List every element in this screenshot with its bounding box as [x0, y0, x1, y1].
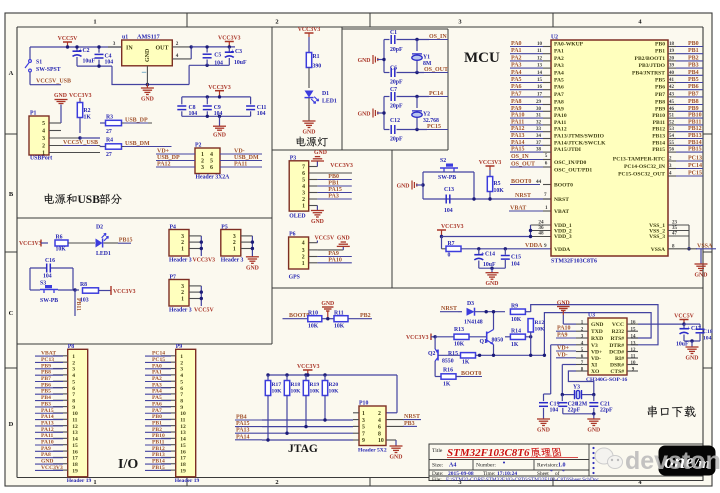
- wire VCC3V3 to R1: [308, 37, 310, 53]
- svg-text:PB4/JNTRST: PB4/JNTRST: [632, 70, 665, 76]
- svg-text:C16: C16: [45, 258, 55, 264]
- svg-text:PA2: PA2: [554, 56, 564, 62]
- gnd rail left crystal Y1: [383, 40, 385, 73]
- svg-text:OSC_IN/PD0: OSC_IN/PD0: [554, 160, 587, 166]
- svg-text:STM32F103C8T6: STM32F103C8T6: [551, 259, 597, 265]
- watermark chat logo: [595, 448, 623, 469]
- svg-text:3: 3: [181, 234, 184, 240]
- svg-text:390: 390: [313, 64, 322, 70]
- svg-text:R1: R1: [313, 54, 320, 60]
- svg-text:PB11: PB11: [75, 298, 81, 311]
- svg-text:PB9: PB9: [655, 106, 665, 112]
- svg-text:*: *: [550, 469, 553, 475]
- svg-text:11: 11: [72, 418, 77, 424]
- svg-text:U3: U3: [588, 313, 595, 319]
- svg-text:P10: P10: [359, 401, 368, 407]
- svg-text:B: B: [9, 191, 14, 198]
- connector P1 USBPort: [29, 116, 49, 155]
- svg-text:2: 2: [180, 360, 183, 366]
- svg-text:16: 16: [72, 449, 78, 455]
- svg-text:R18: R18: [291, 382, 301, 388]
- svg-text:23: 23: [672, 221, 678, 226]
- wire S1 to VCC5V_USB: [29, 72, 31, 85]
- svg-text:R20: R20: [329, 382, 339, 388]
- capacitor C9 104: [206, 97, 208, 104]
- ground symbol below C14 C15: [486, 272, 499, 274]
- svg-text:4: 4: [302, 184, 305, 190]
- reset loop wires around S2 and C13: [423, 171, 474, 173]
- section title 电源灯: [296, 136, 305, 146]
- svg-text:7: 7: [362, 431, 365, 437]
- P3 pin7 to GND above: [316, 161, 318, 167]
- connector P9 Header 19: [176, 349, 196, 477]
- microcontroller U2 STM32F103C8T6: [551, 40, 668, 256]
- svg-text:12: 12: [180, 424, 186, 430]
- svg-text:XO: XO: [591, 369, 600, 375]
- svg-text:13: 13: [537, 64, 543, 69]
- svg-text:R4: R4: [106, 138, 113, 144]
- pin 3 stub of U1: [108, 46, 122, 48]
- svg-text:VDDA: VDDA: [554, 247, 570, 253]
- svg-text:2: 2: [275, 19, 278, 26]
- svg-text:10K: 10K: [535, 327, 546, 333]
- U2 VSS stubs pins 23 35 47: [668, 224, 689, 226]
- P6 pin3 to GND symbol: [317, 249, 343, 251]
- svg-text:16: 16: [537, 85, 543, 90]
- svg-text:9: 9: [362, 438, 365, 444]
- svg-text:17: 17: [72, 456, 78, 462]
- svg-text:1: 1: [233, 247, 236, 253]
- svg-text:Header 3: Header 3: [221, 258, 244, 264]
- svg-text:10K: 10K: [272, 389, 283, 395]
- S3 loop wires: [29, 268, 31, 290]
- capacitor C20 22pF: [561, 395, 563, 402]
- svg-text:Number:: Number:: [476, 463, 496, 469]
- svg-text:1: 1: [302, 261, 305, 267]
- U3 XO wire down to crystal Y3: [568, 371, 593, 395]
- svg-text:A4: A4: [449, 463, 456, 469]
- wire R14 base side to Q1 base: [504, 336, 506, 338]
- P2 left stubs and net labels VD+ USB_DP PA12: [175, 153, 195, 155]
- svg-text:C20: C20: [568, 402, 578, 408]
- P6 pin4 to VCC5V: [316, 241, 318, 243]
- resistor R19 10K: [305, 375, 307, 381]
- svg-text:20pF: 20pF: [390, 47, 403, 53]
- svg-text:11: 11: [180, 418, 185, 424]
- svg-text:D2: D2: [96, 225, 103, 231]
- resistor R1 390 vertical: [306, 53, 311, 68]
- ground symbol below Y3 caps: [587, 418, 600, 420]
- svg-text:PA6: PA6: [554, 85, 564, 91]
- svg-text:GND: GND: [537, 428, 550, 434]
- svg-text:XI: XI: [591, 363, 597, 369]
- svg-text:C15: C15: [511, 255, 521, 261]
- svg-text:RXD: RXD: [591, 336, 603, 342]
- svg-text:NRST: NRST: [554, 197, 569, 203]
- switch S1 SW-SPST: [29, 47, 31, 60]
- svg-text:C11: C11: [257, 105, 267, 111]
- svg-text:File:: File:: [432, 477, 442, 483]
- svg-text:VCC3V3: VCC3V3: [193, 258, 216, 264]
- crystal Y1 8M: [416, 40, 418, 52]
- ground symbol below U1: [146, 85, 148, 89]
- P3 pin stubs: [309, 166, 318, 168]
- svg-text:A: A: [9, 70, 14, 77]
- svg-text:14: 14: [72, 437, 78, 443]
- svg-text:10: 10: [180, 411, 186, 417]
- wire R9 to R12 top: [530, 311, 532, 313]
- svg-text:RTS#: RTS#: [611, 336, 625, 342]
- svg-text:Y1: Y1: [423, 55, 430, 61]
- capacitor C6 20pF on OSC_OUT: [384, 72, 390, 74]
- svg-text:S1: S1: [36, 60, 42, 66]
- svg-text:PB1: PB1: [655, 49, 665, 55]
- svg-text:VCC3V3: VCC3V3: [406, 335, 429, 341]
- svg-text:VCC3V3: VCC3V3: [113, 289, 136, 295]
- wire gnd to P1 pin5: [60, 105, 62, 124]
- svg-text:8050: 8050: [492, 338, 504, 344]
- svg-text:39: 39: [669, 64, 675, 69]
- svg-text:2: 2: [302, 255, 305, 261]
- svg-text:2: 2: [176, 41, 179, 47]
- svg-text:VSS_3: VSS_3: [649, 234, 665, 240]
- svg-text:PA15/JTDI: PA15/JTDI: [554, 147, 581, 153]
- svg-text:5: 5: [210, 159, 213, 165]
- resistor R12 10K vertical: [528, 319, 533, 332]
- svg-text:PA9: PA9: [554, 106, 564, 112]
- svg-text:Y3: Y3: [573, 385, 580, 391]
- P1 pin stubs: [49, 122, 61, 124]
- svg-text:R12: R12: [535, 320, 545, 326]
- pin 1 gnd stub of U1: [146, 66, 148, 85]
- svg-text:GND: GND: [591, 322, 603, 328]
- resistor R2 1K vertical: [79, 98, 81, 101]
- svg-text:GND: GND: [390, 455, 403, 461]
- LED D2 PB15: [96, 233, 109, 247]
- gnd wire under C14 C15: [479, 267, 506, 269]
- svg-text:PB2/BOOT1: PB2/BOOT1: [635, 56, 666, 62]
- svg-text:44: 44: [536, 179, 542, 185]
- svg-text:35: 35: [672, 226, 678, 231]
- svg-text:56: 56: [669, 148, 675, 153]
- svg-text:4: 4: [72, 373, 75, 379]
- svg-text:VCC5V_USB: VCC5V_USB: [36, 79, 71, 85]
- svg-text:R17: R17: [272, 382, 282, 388]
- wire R1 to LED D1: [308, 68, 310, 89]
- svg-text:53: 53: [669, 127, 675, 132]
- svg-text:5: 5: [180, 379, 183, 385]
- svg-text:3: 3: [181, 284, 184, 290]
- svg-text:PB14: PB14: [652, 140, 665, 146]
- svg-text:u1: u1: [122, 35, 128, 41]
- R14 junction with R12 bottom: [525, 336, 530, 338]
- pin 4 stub of U1 joined up to output: [172, 58, 191, 60]
- U3 VCC wire to VCC5V: [638, 323, 684, 325]
- ground symbol below C17 C18: [686, 346, 699, 348]
- zone column ticks top and bottom: [186, 13, 188, 27]
- JTAG wires to P10: [262, 419, 353, 421]
- svg-text:6: 6: [302, 171, 305, 177]
- svg-text:CTS#: CTS#: [610, 369, 624, 375]
- capacitor C8 104: [181, 97, 183, 104]
- svg-text:JTAG: JTAG: [288, 443, 318, 455]
- svg-text:4: 4: [42, 129, 45, 135]
- svg-text:C14: C14: [485, 252, 495, 258]
- svg-text:PA3: PA3: [554, 63, 564, 69]
- svg-text:1: 1: [180, 354, 183, 360]
- svg-text:1K: 1K: [511, 342, 519, 348]
- svg-text:PB10: PB10: [652, 113, 665, 119]
- capacitor C11 104: [250, 97, 252, 104]
- capacitor C14 10uF: [478, 249, 480, 255]
- svg-text:R2: R2: [84, 108, 91, 114]
- svg-text:1: 1: [201, 152, 204, 158]
- svg-text:PB7: PB7: [655, 92, 665, 98]
- svg-text:GPS: GPS: [289, 274, 300, 280]
- svg-text:45: 45: [669, 100, 675, 105]
- svg-text:Q1: Q1: [480, 339, 488, 345]
- svg-text:PA11: PA11: [554, 120, 567, 126]
- VDD rail wires: [440, 235, 443, 238]
- svg-text:104: 104: [703, 336, 712, 342]
- svg-text:Q2: Q2: [428, 351, 436, 357]
- svg-text:MCU: MCU: [464, 50, 500, 66]
- svg-text:OSC_OUT/PD1: OSC_OUT/PD1: [554, 168, 592, 174]
- svg-text:12: 12: [537, 56, 543, 61]
- svg-text:10K: 10K: [310, 389, 321, 395]
- svg-text:2: 2: [275, 479, 278, 486]
- transistor Q2 8550 PNP: [434, 337, 436, 349]
- svg-text:Header 19: Header 19: [67, 478, 92, 484]
- svg-text:PA7: PA7: [554, 92, 564, 98]
- ground symbol below D1: [303, 120, 316, 122]
- svg-text:20pF: 20pF: [390, 80, 403, 86]
- svg-text:R15: R15: [448, 351, 458, 357]
- ground symbol below C19: [537, 418, 550, 420]
- svg-text:104: 104: [550, 408, 559, 414]
- gnd rail left crystal Y2: [383, 97, 385, 130]
- svg-text:PB11: PB11: [653, 120, 666, 126]
- capacitor C21 22pF: [593, 395, 595, 402]
- svg-text:18: 18: [180, 462, 186, 468]
- svg-text:PA14/JTCK/SWCLK: PA14/JTCK/SWCLK: [554, 140, 606, 146]
- svg-text:47: 47: [672, 232, 678, 237]
- svg-text:GND: GND: [145, 48, 151, 62]
- section title 串口下载: [648, 406, 657, 418]
- svg-text:41: 41: [669, 78, 675, 83]
- svg-text:PA8: PA8: [554, 100, 564, 106]
- svg-text:51: 51: [669, 114, 675, 119]
- junction and net label PC14: [415, 95, 418, 98]
- capacitor C3 10uF: [228, 47, 230, 52]
- svg-text:C: C: [9, 310, 14, 317]
- svg-text:10: 10: [631, 361, 637, 366]
- capacitor C12 20pF on PC15: [384, 129, 390, 131]
- connector P10 Header 5X2: [359, 406, 386, 446]
- svg-text:Y2: Y2: [423, 112, 430, 118]
- svg-text:8M: 8M: [423, 61, 432, 67]
- svg-text:OUT: OUT: [156, 46, 169, 52]
- P10 pin 10 to GND: [395, 440, 397, 446]
- svg-text:GND: GND: [303, 130, 316, 136]
- svg-text:C18: C18: [703, 329, 713, 335]
- P4 pins bussed to VCC3V3: [200, 236, 202, 256]
- svg-text:46: 46: [669, 107, 675, 112]
- svg-text:19: 19: [669, 49, 675, 54]
- connector P4 Header 3: [169, 230, 189, 257]
- svg-text:3: 3: [362, 418, 365, 424]
- svg-text:33: 33: [536, 127, 542, 132]
- svg-text:VD-: VD-: [591, 356, 601, 362]
- svg-text:4: 4: [378, 418, 381, 424]
- capacitor C18 104: [684, 323, 700, 325]
- svg-text:14: 14: [537, 71, 543, 76]
- svg-text:52: 52: [669, 120, 675, 125]
- svg-text:C9: C9: [214, 105, 221, 111]
- svg-text:10K: 10K: [334, 324, 345, 330]
- connector P3 OLED: [289, 161, 309, 211]
- svg-text:3: 3: [72, 367, 75, 373]
- svg-text:LED1: LED1: [96, 251, 111, 257]
- svg-text:11: 11: [537, 49, 542, 54]
- svg-text:5: 5: [72, 379, 75, 385]
- svg-text:VDD_3: VDD_3: [554, 234, 572, 240]
- svg-text:18: 18: [669, 42, 675, 47]
- svg-text:R5: R5: [494, 181, 501, 187]
- svg-text:TXD: TXD: [591, 329, 603, 335]
- svg-text:5: 5: [302, 178, 305, 184]
- svg-text:22pF: 22pF: [600, 408, 613, 414]
- svg-text:SW-SPST: SW-SPST: [36, 67, 61, 73]
- svg-text:4: 4: [302, 241, 305, 247]
- svg-text:1: 1: [181, 297, 184, 303]
- svg-text:BOOT0: BOOT0: [554, 183, 573, 189]
- svg-text:3: 3: [201, 165, 204, 171]
- svg-text:P3: P3: [290, 155, 297, 161]
- svg-text:U2: U2: [551, 35, 558, 41]
- svg-text:5: 5: [362, 425, 365, 431]
- svg-text:PC14-OSC32_IN: PC14-OSC32_IN: [624, 164, 665, 170]
- svg-text:37: 37: [536, 141, 542, 146]
- svg-text:C2: C2: [83, 48, 90, 54]
- wire D2 to PB15 label: [104, 242, 119, 244]
- connector P2 Header 3X2A: [195, 148, 220, 174]
- svg-text:2: 2: [181, 240, 184, 246]
- watermark black badge: [659, 446, 715, 475]
- svg-text:104: 104: [105, 60, 114, 66]
- svg-text:P7: P7: [170, 275, 177, 281]
- svg-text:8: 8: [180, 398, 183, 404]
- svg-text:34: 34: [536, 134, 542, 139]
- svg-text:10K: 10K: [329, 389, 340, 395]
- svg-text:C8: C8: [189, 105, 196, 111]
- capacitor C5 104: [206, 47, 208, 53]
- U3 XI wire down to crystal Y3: [562, 364, 576, 366]
- svg-text:Header 5X2: Header 5X2: [358, 448, 387, 454]
- svg-text:1: 1: [72, 354, 75, 360]
- svg-text:10: 10: [537, 42, 543, 47]
- svg-text:29: 29: [536, 100, 542, 105]
- svg-text:1N4148: 1N4148: [464, 320, 483, 326]
- svg-text:PC13-TAMPER-RTC: PC13-TAMPER-RTC: [613, 157, 665, 163]
- svg-text:10K: 10K: [454, 342, 465, 348]
- svg-text:9: 9: [180, 405, 183, 411]
- svg-text:11: 11: [631, 355, 636, 360]
- svg-text:GND: GND: [587, 428, 600, 434]
- svg-text:Size:: Size:: [432, 463, 444, 469]
- svg-text:15: 15: [180, 443, 186, 449]
- svg-text:PB8: PB8: [655, 100, 665, 106]
- svg-text:20pF: 20pF: [390, 137, 403, 143]
- svg-text:20: 20: [669, 56, 675, 61]
- svg-text:54: 54: [669, 134, 675, 139]
- svg-text:19: 19: [72, 468, 78, 474]
- gnd rail of capacitor bank: [182, 115, 251, 117]
- U3 V3 pin wire down to C19: [551, 344, 576, 346]
- svg-text:4: 4: [180, 373, 183, 379]
- svg-text:7: 7: [180, 392, 183, 398]
- svg-text:USB: USB: [78, 194, 101, 206]
- svg-text:GND: GND: [557, 301, 570, 307]
- svg-text:1: 1: [545, 205, 548, 211]
- svg-text:*: *: [562, 469, 565, 475]
- svg-text:10: 10: [72, 411, 78, 417]
- svg-text:Header 3X2A: Header 3X2A: [196, 175, 231, 181]
- svg-text:VCC3V3: VCC3V3: [441, 224, 464, 230]
- svg-text:Revision:: Revision:: [537, 463, 559, 469]
- svg-text:VCC5V: VCC5V: [194, 308, 214, 314]
- P3 pin1 to GND below: [316, 206, 318, 211]
- svg-text:V3: V3: [591, 343, 598, 349]
- svg-text:GND: GND: [686, 356, 699, 362]
- svg-text:OLED: OLED: [289, 214, 305, 220]
- svg-text:3: 3: [233, 234, 236, 240]
- svg-text:27: 27: [106, 152, 112, 158]
- svg-text:14: 14: [180, 437, 186, 443]
- svg-text:GND: GND: [695, 273, 708, 279]
- svg-text:VCC3V3: VCC3V3: [297, 364, 320, 370]
- svg-text:P5: P5: [221, 225, 228, 231]
- svg-text:GND: GND: [486, 281, 499, 287]
- svg-text:1: 1: [42, 151, 45, 157]
- svg-text:10K: 10K: [291, 389, 302, 395]
- gnd wire under C17 C18: [684, 340, 700, 342]
- svg-text:AMS117: AMS117: [137, 34, 160, 41]
- svg-text:C5: C5: [214, 53, 221, 59]
- svg-text:GND: GND: [358, 58, 371, 64]
- wire S3 to R8: [75, 289, 79, 291]
- svg-text:P9: P9: [176, 344, 183, 350]
- svg-text:31: 31: [536, 114, 542, 119]
- junction dot at VCC5V tap: [66, 45, 69, 48]
- svg-text:GND: GND: [246, 265, 259, 271]
- svg-text:NRST: NRST: [515, 193, 531, 199]
- svg-text:PA0-WKUP: PA0-WKUP: [554, 42, 584, 48]
- capacitor C4 104: [98, 47, 100, 53]
- svg-text:10K: 10K: [494, 188, 505, 194]
- svg-text:2: 2: [201, 159, 204, 165]
- svg-text:PB15: PB15: [652, 147, 665, 153]
- svg-text:Header 3: Header 3: [169, 308, 192, 314]
- wire D3 to junction: [475, 311, 506, 313]
- svg-text:9: 9: [544, 243, 547, 249]
- svg-text:27: 27: [106, 129, 112, 135]
- svg-text:10: 10: [378, 438, 384, 444]
- svg-text:19: 19: [180, 468, 186, 474]
- VCC3V3 rail to P10 pin 2: [396, 375, 398, 413]
- junction R2 to pin3 wire: [78, 136, 81, 139]
- svg-text:6: 6: [210, 165, 213, 171]
